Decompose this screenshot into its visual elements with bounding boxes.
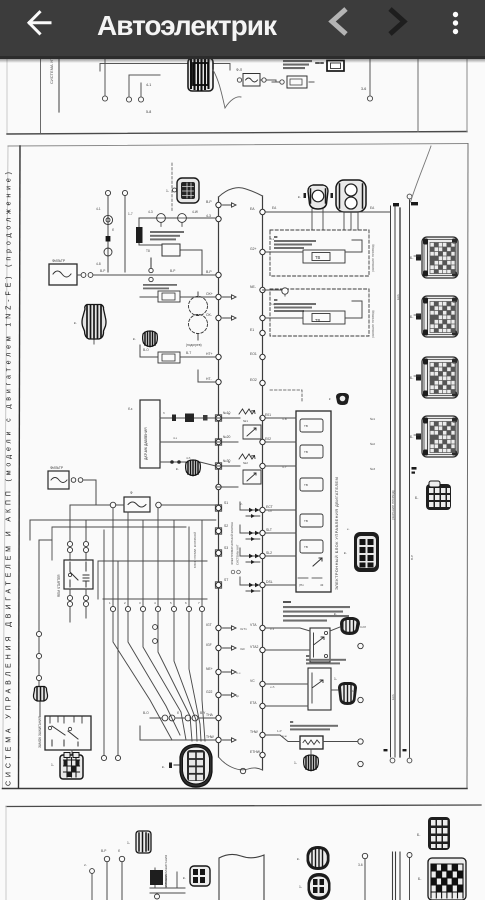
inline pin pairs on y718 [150,715,216,721]
svg-text:б-кр: б-кр [270,302,276,306]
starter relay tails [70,589,86,622]
svg-text:ТВ: ТВ [304,519,308,523]
hatched connector H2 [186,460,201,476]
svg-text:БЛОК УПРАВЛ. КОРОБКОЙ: БЛОК УПРАВЛ. КОРОБКОЙ [193,532,197,568]
relay box K1 [272,76,314,88]
svg-text:ТВ: ТВ [304,450,308,454]
svg-text:2: 2 [124,601,126,605]
svg-text:Т8: Т8 [146,249,150,253]
bus L1 [218,197,220,757]
svg-text:С2Л: С2Л [360,625,366,629]
bus L1 arrows [223,203,237,742]
dashed box cam sensor [265,230,369,276]
bus L1 terminal squares [215,415,221,588]
svg-text:Б-: Б- [410,315,413,319]
svg-text:VТА2: VТА2 [250,645,258,649]
svg-text:Б-: Б- [410,256,413,260]
wire drop pair x108/x125 [108,196,125,272]
top page bottom border [7,132,467,135]
svg-text:В-Р: В-Р [410,555,414,560]
pin connector CB6 [417,817,450,850]
svg-text:ОХ-: ОХ- [206,313,212,317]
svg-text:6: 6 [185,601,187,605]
torn top curve [219,188,263,197]
pin circle D3 [36,675,41,680]
svg-text:ТНW: ТНW [206,735,215,739]
dark oval connector CN7 [299,873,331,900]
wire y520 long [30,520,216,540]
svg-text:к-: к- [297,857,300,861]
top page right border [466,58,468,132]
drops to starter relay [70,505,96,541]
bus R mid line [399,208,401,757]
svg-text:б: б [177,711,179,715]
harness pin row [110,606,204,611]
svg-text:4-1: 4-1 [96,207,101,211]
title block rule [19,146,21,788]
throttle sensor text block 2 [306,655,346,664]
svg-text:43: 43 [320,583,324,587]
svg-text:S2: S2 [224,524,228,528]
svg-text:Е1: Е1 [250,328,254,332]
hatched connector H4 [294,749,318,771]
svg-text:Б-: Б- [415,496,418,500]
svg-text:ДАТЧИК ДАВЛЕНИЯ: ДАТЧИК ДАВЛЕНИЯ [144,427,148,460]
wire stub pair [129,83,141,96]
svg-text:ЕО1: ЕО1 [250,352,257,356]
bus R2 top pin [407,194,412,199]
big oval connector CN1 [162,745,212,788]
svg-text:В-Y: В-Y [200,711,206,715]
MAP wire row 1 [160,411,216,422]
bottom long wire y740 [140,726,216,740]
svg-text:IGT1: IGT1 [240,627,247,631]
svg-text:1-: 1- [127,841,130,845]
bottom page left edge [5,806,7,900]
wire y505 runs [96,504,216,506]
starter relay box [57,560,93,597]
svg-text:1: 1 [109,601,111,605]
svg-text:В-Р: В-Р [206,270,212,274]
svg-text:1-Р: 1-Р [277,729,282,733]
prev chevron [332,9,346,34]
big hatched connector B1 [74,305,106,345]
node pin circle A3 [138,97,143,102]
pin connector CB7 [418,858,466,900]
shielded wire caption columns [391,294,414,700]
pin connector CB5 (small) [415,481,451,510]
svg-text:1-: 1- [334,677,337,681]
app toolbar [0,0,485,58]
label col x108 [96,207,133,266]
dashed locator line [171,163,173,212]
svg-text:к: к [329,397,331,401]
camshaft connector P1 [298,185,328,209]
node pin circle A1 [102,96,107,101]
partial module frame [219,854,264,900]
svg-text:(ЭКРАНИР. ПРОВОД): (ЭКРАНИР. ПРОВОД) [391,490,395,520]
pin dots [316,62,323,64]
MAP wire row 3 [160,456,216,466]
small coil connector T2 [127,831,151,853]
bus tick labels [384,202,419,751]
top page left paper edge [6,58,8,133]
svg-text:Б-: Б- [410,376,413,380]
svg-text:(ЭКРАНИР. ПРОВОД): (ЭКРАНИР. ПРОВОД) [371,310,375,338]
wire drop W1 [104,58,106,95]
svg-text:к-: к- [162,765,165,769]
ignition coil connector T1 (dark hatched) [188,58,213,91]
svg-text:1-: 1- [51,763,54,767]
hatched connector H1 [143,331,158,347]
MAP wire row 2 [160,436,216,442]
svg-text:1-: 1- [166,189,169,193]
svg-text:1-7: 1-7 [128,212,133,216]
svg-text:х-б: х-б [270,685,275,689]
svg-text:4-8: 4-8 [96,262,101,266]
svg-text:ФИЛЬТР: ФИЛЬТР [50,466,64,470]
wire to ECU stub [266,80,276,82]
wire drop E1 [101,849,110,900]
svg-text:НТ-: НТ- [206,377,212,381]
bottom page top border [6,805,481,807]
svg-text:ЕА: ЕА [250,207,255,211]
svg-text:ФИЛЬТР: ФИЛЬТР [52,259,66,263]
svg-text:б: б [228,412,230,416]
svg-text:4-W: 4-W [192,210,198,214]
crankshaft connector P2 [331,180,367,212]
svg-text:ЕО2: ЕО2 [250,378,257,382]
svg-text:ТВ: ТВ [304,545,308,549]
svg-text:ST: ST [224,578,228,582]
svg-text:Е02: Е02 [265,437,271,441]
svg-text:№2: №2 [370,442,375,446]
pin circle C2a pair [67,595,72,606]
svg-text:НТ+: НТ+ [206,352,213,356]
noise filter F4 inline [110,491,161,512]
svg-text:ЕА: ЕА [370,206,375,210]
svg-text:1-: 1- [352,689,355,693]
harness fan-out [113,612,205,741]
small dark connector CN8 above ECU [329,393,349,405]
stoplamp switch branch [136,210,216,275]
svg-text:кр: кр [236,694,239,698]
svg-text:к-: к- [176,467,179,471]
ECU stub box [327,61,344,72]
left feed wire chain [39,540,52,716]
svg-text:ЗАМОК ЗАЖИГАНИЯ: ЗАМОК ЗАЖИГАНИЯ [38,716,42,748]
ECU box U1 [296,411,331,592]
pin circle C1a pair [67,541,72,552]
injector ladder rows [216,409,261,593]
svg-text:б: б [112,228,114,232]
svg-text:IGF: IGF [206,643,212,647]
wire EA y212 [265,211,390,213]
wire drop W2 [369,58,371,95]
pin connector CB1 [410,237,458,278]
svg-text:б: б [118,849,120,853]
svg-text:4-Y: 4-Y [282,465,287,469]
svg-text:В-Р: В-Р [100,269,105,273]
svg-text:3: 3 [139,601,141,605]
svg-text:7: 7 [198,601,200,605]
coolant temp sensor RT1 [265,729,358,749]
svg-text:2-: 2- [84,863,87,867]
dark connector CN3 [330,612,360,635]
wire filter to drop [83,480,96,505]
scattered wire labels mid column [228,237,375,738]
node pin circle A2 [126,97,131,102]
harness labels [109,601,200,605]
svg-text:ТВ: ТВ [304,483,308,487]
main page right border [467,144,468,789]
svg-text:ЕТНW: ЕТНW [250,750,261,754]
O2 sensor heater resistor box upper [140,284,216,302]
top page second rule [58,58,60,112]
back arrow icon [0,0,485,57]
sensor G2 (circle) [104,248,112,256]
ECU caption text lines [283,601,350,622]
svg-text:к-: к- [183,876,186,880]
svg-text:ТНА: ТНА [206,713,214,717]
svg-text:В-О: В-О [143,711,149,715]
ECU row wires [265,418,296,585]
connector drops P1 P2 [312,209,358,230]
svg-text:2-: 2- [240,502,243,506]
throttle sensor box TP1 [265,628,330,662]
svg-text:ТНW: ТНW [250,730,259,734]
main page paper edge [3,146,9,788]
svg-text:Б-: Б- [410,435,413,439]
svg-text:VC: VC [250,679,255,683]
pin connector CB4 [410,416,458,457]
pin circle B1 [105,190,110,195]
wire drop E3 [358,853,368,900]
svg-text:б-з: б-з [128,407,133,411]
svg-text:SLT: SLT [266,528,272,532]
svg-text:к-: к- [133,337,136,341]
svg-text:1-: 1- [299,885,302,889]
hatched connector H5 [33,687,47,702]
right pin column circles [240,643,363,773]
svg-text:(подогрев): (подогрев) [186,343,202,347]
pin circle C2b pair [83,595,88,606]
torn corner curve top right [411,146,432,202]
bus R1 bottom pin [390,758,395,763]
inline pin pair v155 [153,625,158,644]
svg-text:5: 5 [170,601,172,605]
svg-text:В-О: В-О [143,348,149,352]
svg-text:Б-: Б- [418,877,421,881]
multi-pin connector CN2 [344,532,379,572]
inline pin pair on y275 [149,258,153,282]
svg-text:б-з: б-з [270,237,275,241]
sensor G1 (double circle) [103,215,112,224]
svg-text:ЕКА: ЕКА [396,294,400,300]
svg-text:4-з: 4-з [173,436,178,440]
bus L2 pin labels [250,207,273,754]
node pin circle A4 [367,96,372,101]
torn bottom curve [219,757,263,770]
svg-text:ЭЛЕКТРОННЫЙ БЛОК УПРАВЛЕНИЯ ДВ: ЭЛЕКТРОННЫЙ БЛОК УПРАВЛЕНИЯ ДВИГАТЕЛЕМ [334,477,339,590]
pin connector CB2 [410,296,458,337]
svg-text:В-Р: В-Р [206,200,212,204]
svg-text:Ф: Ф [130,491,133,495]
bus L1 pin labels [206,200,231,739]
svg-text:G22: G22 [206,690,213,694]
wire drop E2 [118,849,125,900]
svg-text:1-: 1- [294,761,297,765]
svg-text:№2: №2 [243,461,248,465]
bus L2 terminal pins [260,209,265,757]
dashed box fragment above ECU [270,390,302,402]
top page title block rule [40,58,42,133]
svg-text:4-3: 4-3 [206,214,211,218]
svg-text:к-: к- [74,321,77,325]
svg-text:б: б [163,411,165,415]
svg-text:NE-: NE- [250,285,256,289]
O2 heater lower branch [140,345,216,363]
svg-text:4-б: 4-б [186,456,191,460]
svg-text:№1: №1 [370,417,375,421]
svg-text:ОХ+: ОХ+ [206,292,213,296]
stub with pin E0 [84,863,94,900]
svg-text:IGF: IGF [240,647,245,651]
svg-text:Б-: Б- [417,833,420,837]
right inner rule [417,58,419,132]
svg-text:S1: S1 [224,501,228,505]
solenoid stub rows [240,502,260,591]
svg-text:ЭЛЕКТРОМАГНИТНЫЙ КЛАПАН: ЭЛЕКТРОМАГНИТНЫЙ КЛАПАН [230,522,234,565]
svg-text:4-В: 4-В [282,417,287,421]
pin circle D2 [36,653,41,658]
main page top border [8,144,468,147]
svg-text:В-Р: В-Р [170,269,175,273]
svg-text:3-6: 3-6 [358,863,363,867]
svg-text:№3: №3 [370,467,375,471]
bus R2 line [409,200,411,757]
svg-text:4-1: 4-1 [146,83,151,87]
ignition coil部 assembly [150,868,185,899]
svg-text:(Пл: (Пл [299,583,304,587]
wire drops to pins near switch [101,530,120,761]
svg-text:ТВ: ТВ [315,255,321,260]
wire y527 [52,527,186,560]
svg-text:к-: к- [344,551,347,555]
noise filter F3 [48,466,83,489]
labels bottom-left [143,711,206,715]
connector CN5 [183,866,210,886]
pin circle B2 [122,190,127,195]
vertical harness cluster [98,508,207,606]
svg-text:Ф-Л: Ф-Л [236,68,242,72]
svg-text:ж: ж [228,460,231,464]
svg-text:3-6: 3-6 [361,87,366,91]
dark oval connector CN6 [297,846,330,870]
wire L-run [129,75,160,83]
dark connector CN4 [331,677,357,705]
O2 sensor element circles [186,292,208,347]
pin circle D1 [36,631,41,636]
svg-text:VТА: VТА [250,623,257,627]
label EA [272,206,375,210]
svg-text:ЕТА: ЕТА [250,701,257,705]
bus L1 terminal pins [216,202,221,742]
bus R2 bottom pin [407,758,412,763]
wire bracket to relay box [100,64,230,72]
svg-text:ТВ: ТВ [304,424,308,428]
torn page curve [213,70,241,108]
overflow menu dots [453,12,458,34]
dashed box crank sensor [265,289,369,336]
svg-text:4: 4 [154,601,156,605]
svg-text:х-з: х-з [270,627,275,631]
pin circle C1b pair [83,541,88,552]
svg-text:SL2: SL2 [266,551,272,555]
bus R1 pair [391,206,396,757]
svg-text:б-ч: б-ч [236,671,241,675]
junction dot [106,236,111,242]
injector row 2 [216,454,261,487]
svg-text:к-: к- [334,612,337,616]
svg-text:S3: S3 [224,546,228,550]
svg-text:G2+: G2+ [250,247,257,251]
svg-text:ЕА: ЕА [272,206,277,210]
next chevron [390,9,404,34]
svg-text:ЕКА: ЕКА [391,694,395,700]
shielded-wire captions right of dashed boxes [371,244,375,338]
MAP sensor box [128,400,160,468]
svg-text:(ЭКРАНИР. ПРОВОД): (ЭКРАНИР. ПРОВОД) [371,244,375,272]
noise filter F2 [49,259,93,285]
ignition switch block SW1 [38,716,91,750]
wire drop E4 [407,853,412,900]
throttle sensor box TP2 [265,668,331,710]
grid connector H3 [51,750,83,779]
svg-text:REM STARTER: REM STARTER [57,574,61,597]
svg-text:5-8: 5-8 [146,110,151,114]
svg-text:к-: к- [298,195,301,199]
coolant temp sensor caption [290,721,338,730]
svg-text:IGT: IGT [206,623,212,627]
bus pair bottom page [393,852,401,900]
label y275 [100,269,175,273]
noise filter F1 [236,68,266,86]
pin connector CB3 [410,357,458,398]
svg-text:ТВ: ТВ [315,318,321,323]
svg-text:Е01: Е01 [265,413,271,417]
injector row 1 [216,409,261,442]
bus L2 [262,196,264,770]
main page bottom border [3,788,468,790]
inline pin between boxes [263,288,289,296]
svg-text:№1: №1 [243,419,248,423]
svg-text:В-Р: В-Р [101,849,106,853]
wire main horizontal y275 [93,274,216,276]
connector J1 top-left [166,178,199,203]
svg-text:№20: №20 [223,435,231,439]
svg-text:DSL: DSL [266,580,273,584]
svg-text:NE+: NE+ [206,667,213,671]
svg-text:В-Т: В-Т [186,351,191,355]
solenoid label text columns [230,522,240,574]
svg-text:СИСТЕМЫ VVT: СИСТЕМЫ VVT [236,544,240,565]
wire y382 [198,370,216,382]
label block relay caption [283,60,312,69]
svg-text:4-3: 4-3 [148,210,153,214]
svg-text:к-: к- [347,527,349,531]
svg-text:СЛ: СЛ [268,509,272,513]
